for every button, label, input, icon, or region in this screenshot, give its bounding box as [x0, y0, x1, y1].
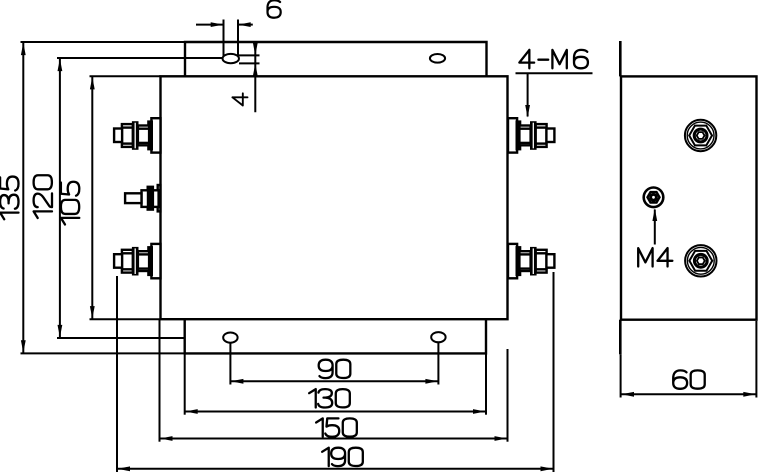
- side view bottom flange tab: [619, 320, 622, 355]
- screw M6 top: [685, 120, 716, 151]
- side view top flange tab: [619, 41, 622, 76]
- top mounting flange: [185, 42, 487, 76]
- terminal L2 (middle left, ground stud): [125, 185, 160, 211]
- dimension 60: [621, 321, 757, 398]
- dimension 6 (slot width): [196, 24, 253, 26]
- dimension 105: [91, 76, 93, 319]
- extension lines for dimension 150: [160, 319, 508, 442]
- dimension 150: [160, 438, 508, 440]
- screw M4: [644, 188, 664, 208]
- bottom mounting flange: [185, 319, 486, 353]
- terminal L1 (top left): [114, 118, 160, 152]
- bottom flange hole left: [223, 333, 237, 343]
- extension lines for dimension 135: [21, 42, 186, 353]
- terminal R2 (bottom right): [508, 244, 554, 278]
- slot in top flange: [223, 42, 239, 63]
- terminal L3 (bottom left): [114, 244, 160, 278]
- extension lines for dimension 6 (slot sides): [224, 20, 239, 43]
- dimension 135: [22, 42, 24, 353]
- label 4-M6 with leader: [519, 50, 588, 68]
- screw M6 bottom: [685, 245, 716, 276]
- extension lines for dimension 4 (slot end): [239, 55, 260, 63]
- extension lines for dimension 190 (from terminal tips): [117, 272, 554, 472]
- terminal R1 (top right): [508, 118, 554, 152]
- main body: [161, 76, 508, 319]
- extension lines for dimension 90 (from flange holes): [230, 343, 438, 385]
- extension lines for dimension 120: [57, 58, 224, 338]
- oval hole in top flange: [430, 54, 445, 63]
- dimension 190: [117, 468, 554, 470]
- dimension 130: [185, 411, 486, 413]
- extension lines for dimension 105: [90, 76, 161, 319]
- dimension 4 (slot end): [254, 42, 256, 113]
- label M4 with leader: [638, 248, 672, 266]
- bottom flange hole right: [431, 332, 445, 342]
- side view body: [621, 76, 757, 319]
- dimension 120: [59, 58, 61, 338]
- extension lines for dimension 130: [185, 353, 486, 414]
- dimension 90: [230, 380, 438, 382]
